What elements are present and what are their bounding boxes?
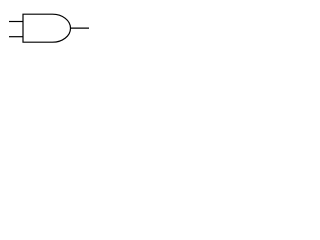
- wire: top input A: [9, 21, 23, 23]
- wire: output Y: [71, 27, 90, 29]
- wire: bottom input B: [9, 36, 23, 38]
- AND gate U1 body: [23, 14, 71, 42]
